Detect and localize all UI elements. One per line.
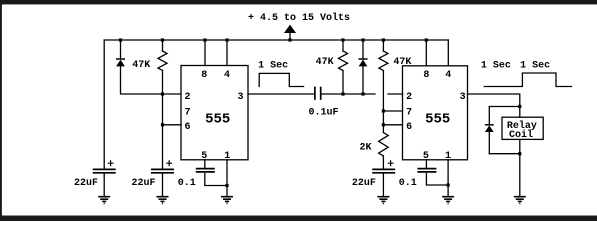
svg-text:3: 3 (460, 92, 466, 103)
svg-text:8: 8 (423, 70, 429, 81)
svg-text:7: 7 (406, 107, 412, 118)
svg-text:1: 1 (224, 151, 230, 162)
svg-text:6: 6 (184, 122, 190, 133)
svg-text:555: 555 (425, 112, 450, 128)
svg-text:2: 2 (406, 92, 412, 103)
svg-text:47K: 47K (393, 57, 411, 68)
svg-text:5: 5 (201, 151, 207, 162)
svg-text:8: 8 (201, 70, 207, 81)
svg-text:22uF: 22uF (352, 178, 376, 189)
svg-text:7: 7 (184, 107, 190, 118)
svg-text:1: 1 (445, 151, 451, 162)
svg-text:22uF: 22uF (131, 178, 155, 189)
svg-text:47K: 47K (132, 60, 150, 71)
svg-text:Coil: Coil (509, 129, 533, 141)
svg-text:+ 4.5 to 15 Volts: + 4.5 to 15 Volts (248, 12, 350, 24)
svg-text:1 Sec: 1 Sec (481, 61, 511, 72)
svg-text:0.1: 0.1 (399, 178, 417, 189)
svg-text:4: 4 (224, 70, 230, 81)
svg-text:2K: 2K (359, 142, 371, 153)
svg-text:1 Sec: 1 Sec (520, 61, 550, 72)
svg-text:0.1uF: 0.1uF (308, 108, 338, 119)
svg-text:5: 5 (423, 151, 429, 162)
svg-text:22uF: 22uF (74, 178, 98, 189)
svg-text:47K: 47K (316, 57, 334, 68)
svg-text:0.1: 0.1 (178, 178, 196, 189)
svg-text:555: 555 (205, 111, 230, 127)
svg-text:4: 4 (445, 70, 451, 81)
svg-text:1 Sec: 1 Sec (258, 61, 288, 72)
svg-text:3: 3 (237, 92, 243, 103)
svg-text:2: 2 (184, 92, 190, 103)
svg-text:6: 6 (406, 122, 412, 133)
